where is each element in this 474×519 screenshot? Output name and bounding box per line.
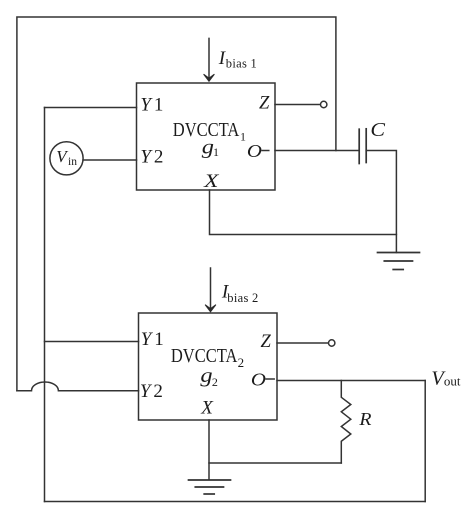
- op-amp block U1 DVCCTA1 (box): [137, 83, 276, 190]
- svg-text:Z: Z: [259, 94, 270, 114]
- svg-text:O: O: [251, 370, 266, 390]
- current source arrow Ibias2: [210, 268, 212, 308]
- svg-text:1: 1: [213, 145, 219, 159]
- wire: X2 terminal down to ground: [208, 420, 210, 480]
- wire: Vin to Y2 input of DVCCTA1: [83, 159, 136, 161]
- current source arrow Ibias1: [208, 38, 210, 77]
- svg-text:2: 2: [238, 355, 245, 370]
- resistor R (zigzag): [341, 381, 351, 464]
- wire: Y1 input of DVCCTA2 (tap junction on feedback line): [45, 341, 139, 343]
- wire: O2 output to Vout node: [277, 380, 425, 382]
- ground symbol G2: [189, 479, 231, 481]
- wire: Vout feedback vertical line from Y1 wire down to bottom wire: [44, 108, 46, 502]
- label: g2 transconductance: [200, 365, 218, 389]
- svg-text:R: R: [358, 409, 371, 429]
- wire: capacitor right plate to ground branch: [366, 151, 396, 253]
- wire: Y2 input of DVCCTA2 with hop over vertical feedback line: [17, 382, 139, 391]
- wire: X2 node to resistor bottom: [209, 462, 341, 464]
- wire: feedback loop from node O1 over the top to left side: [17, 17, 336, 391]
- svg-text:X: X: [200, 398, 214, 419]
- svg-text:O: O: [247, 141, 262, 161]
- svg-text:Y2: Y2: [140, 147, 163, 168]
- svg-text:Y1: Y1: [141, 329, 164, 350]
- node: Z2 open terminal (circle): [329, 340, 335, 346]
- O2 port dash (O- to box edge): [266, 378, 274, 380]
- label: Ibias1: [218, 48, 257, 71]
- svg-text:Y2: Y2: [140, 381, 163, 402]
- svg-text:bias 2: bias 2: [227, 291, 258, 305]
- capacitor C (two plates): [358, 129, 360, 163]
- wire: Vout vertical drop to bottom feedback wire: [424, 381, 426, 502]
- label: node Vout: [431, 368, 461, 390]
- O1 port dash (O- to box edge): [262, 150, 269, 152]
- wire: Y1 input of DVCCTA1: [45, 107, 137, 109]
- svg-text:g: g: [200, 365, 212, 387]
- svg-text:1: 1: [240, 129, 246, 143]
- svg-text:in: in: [68, 156, 77, 168]
- svg-text:2: 2: [212, 375, 218, 389]
- svg-text:Z: Z: [261, 332, 272, 352]
- svg-text:bias 1: bias 1: [226, 57, 257, 71]
- ground symbol G1: [378, 252, 420, 254]
- label: Vin: [56, 147, 77, 168]
- label: g1 transconductance: [202, 137, 219, 160]
- wire: O1 output to capacitor: [275, 150, 359, 152]
- wire: bottom feedback wire from Vout: [45, 501, 426, 503]
- op-amp block U2 DVCCTA2 (box): [139, 313, 278, 420]
- wire: Z2 output stub: [277, 342, 328, 344]
- label: Ibias2: [221, 282, 258, 305]
- svg-text:C: C: [370, 119, 385, 141]
- svg-text:Y1: Y1: [140, 95, 163, 116]
- voltage source Vin (circle): [50, 142, 83, 175]
- svg-text:out: out: [444, 374, 461, 389]
- label: DVCCTA1: [173, 120, 246, 143]
- label: DVCCTA2: [171, 346, 244, 370]
- wire: X1 terminal down and right to ground branch: [210, 190, 397, 235]
- node: Z1 open terminal (circle): [321, 101, 327, 107]
- svg-text:X: X: [203, 171, 220, 192]
- wire: Z1 output stub: [275, 104, 320, 106]
